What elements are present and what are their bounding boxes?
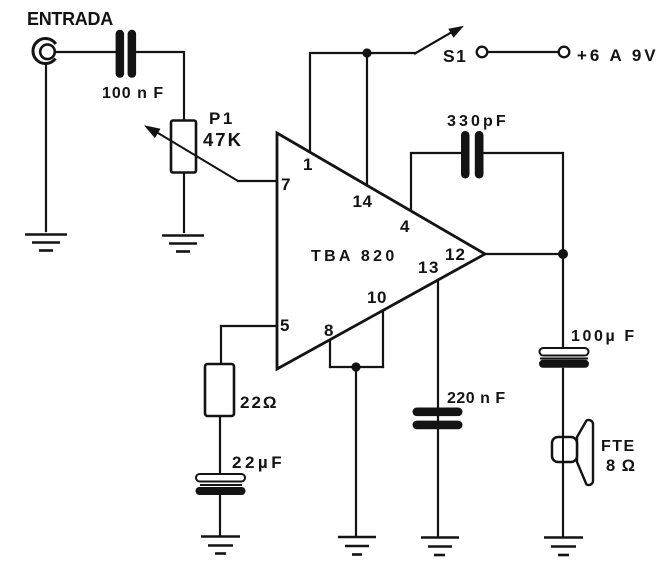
svg-text:47K: 47K — [203, 129, 243, 150]
svg-text:TBA 820: TBA 820 — [311, 248, 398, 265]
svg-text:14: 14 — [353, 192, 373, 211]
svg-text:100µ F: 100µ F — [571, 328, 637, 345]
svg-text:4: 4 — [400, 217, 410, 236]
svg-text:8: 8 — [324, 321, 333, 340]
svg-text:1: 1 — [303, 155, 312, 174]
svg-text:P1: P1 — [209, 109, 235, 128]
svg-text:330pF: 330pF — [447, 113, 509, 130]
svg-text:+6 A 9V: +6 A 9V — [577, 46, 659, 65]
svg-text:ENTRADA: ENTRADA — [27, 9, 113, 29]
svg-text:10: 10 — [367, 288, 387, 307]
svg-text:5: 5 — [280, 316, 289, 335]
svg-text:220 n F: 220 n F — [447, 390, 506, 407]
svg-text:FTE: FTE — [601, 438, 636, 455]
svg-text:22µF: 22µF — [232, 453, 285, 472]
svg-text:100 n F: 100 n F — [102, 85, 164, 102]
svg-text:13: 13 — [418, 258, 440, 277]
svg-text:22Ω: 22Ω — [240, 393, 279, 412]
svg-text:S1: S1 — [443, 46, 467, 66]
svg-text:12: 12 — [445, 245, 466, 264]
svg-text:8 Ω: 8 Ω — [606, 457, 636, 475]
svg-text:7: 7 — [281, 175, 290, 194]
